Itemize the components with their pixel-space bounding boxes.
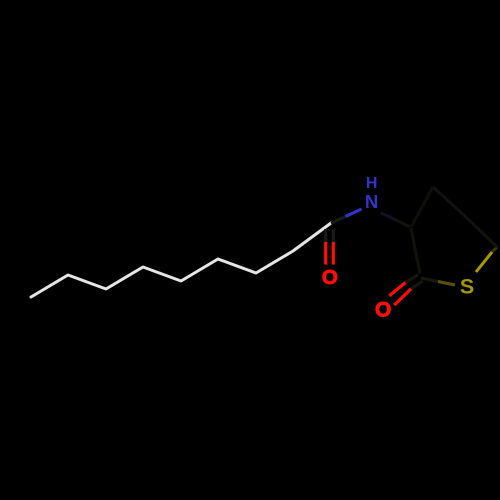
svg-text:O: O (322, 266, 338, 289)
svg-text:S: S (460, 275, 474, 299)
svg-text:H: H (366, 175, 378, 192)
svg-text:N: N (365, 191, 378, 212)
svg-text:O: O (375, 299, 391, 322)
